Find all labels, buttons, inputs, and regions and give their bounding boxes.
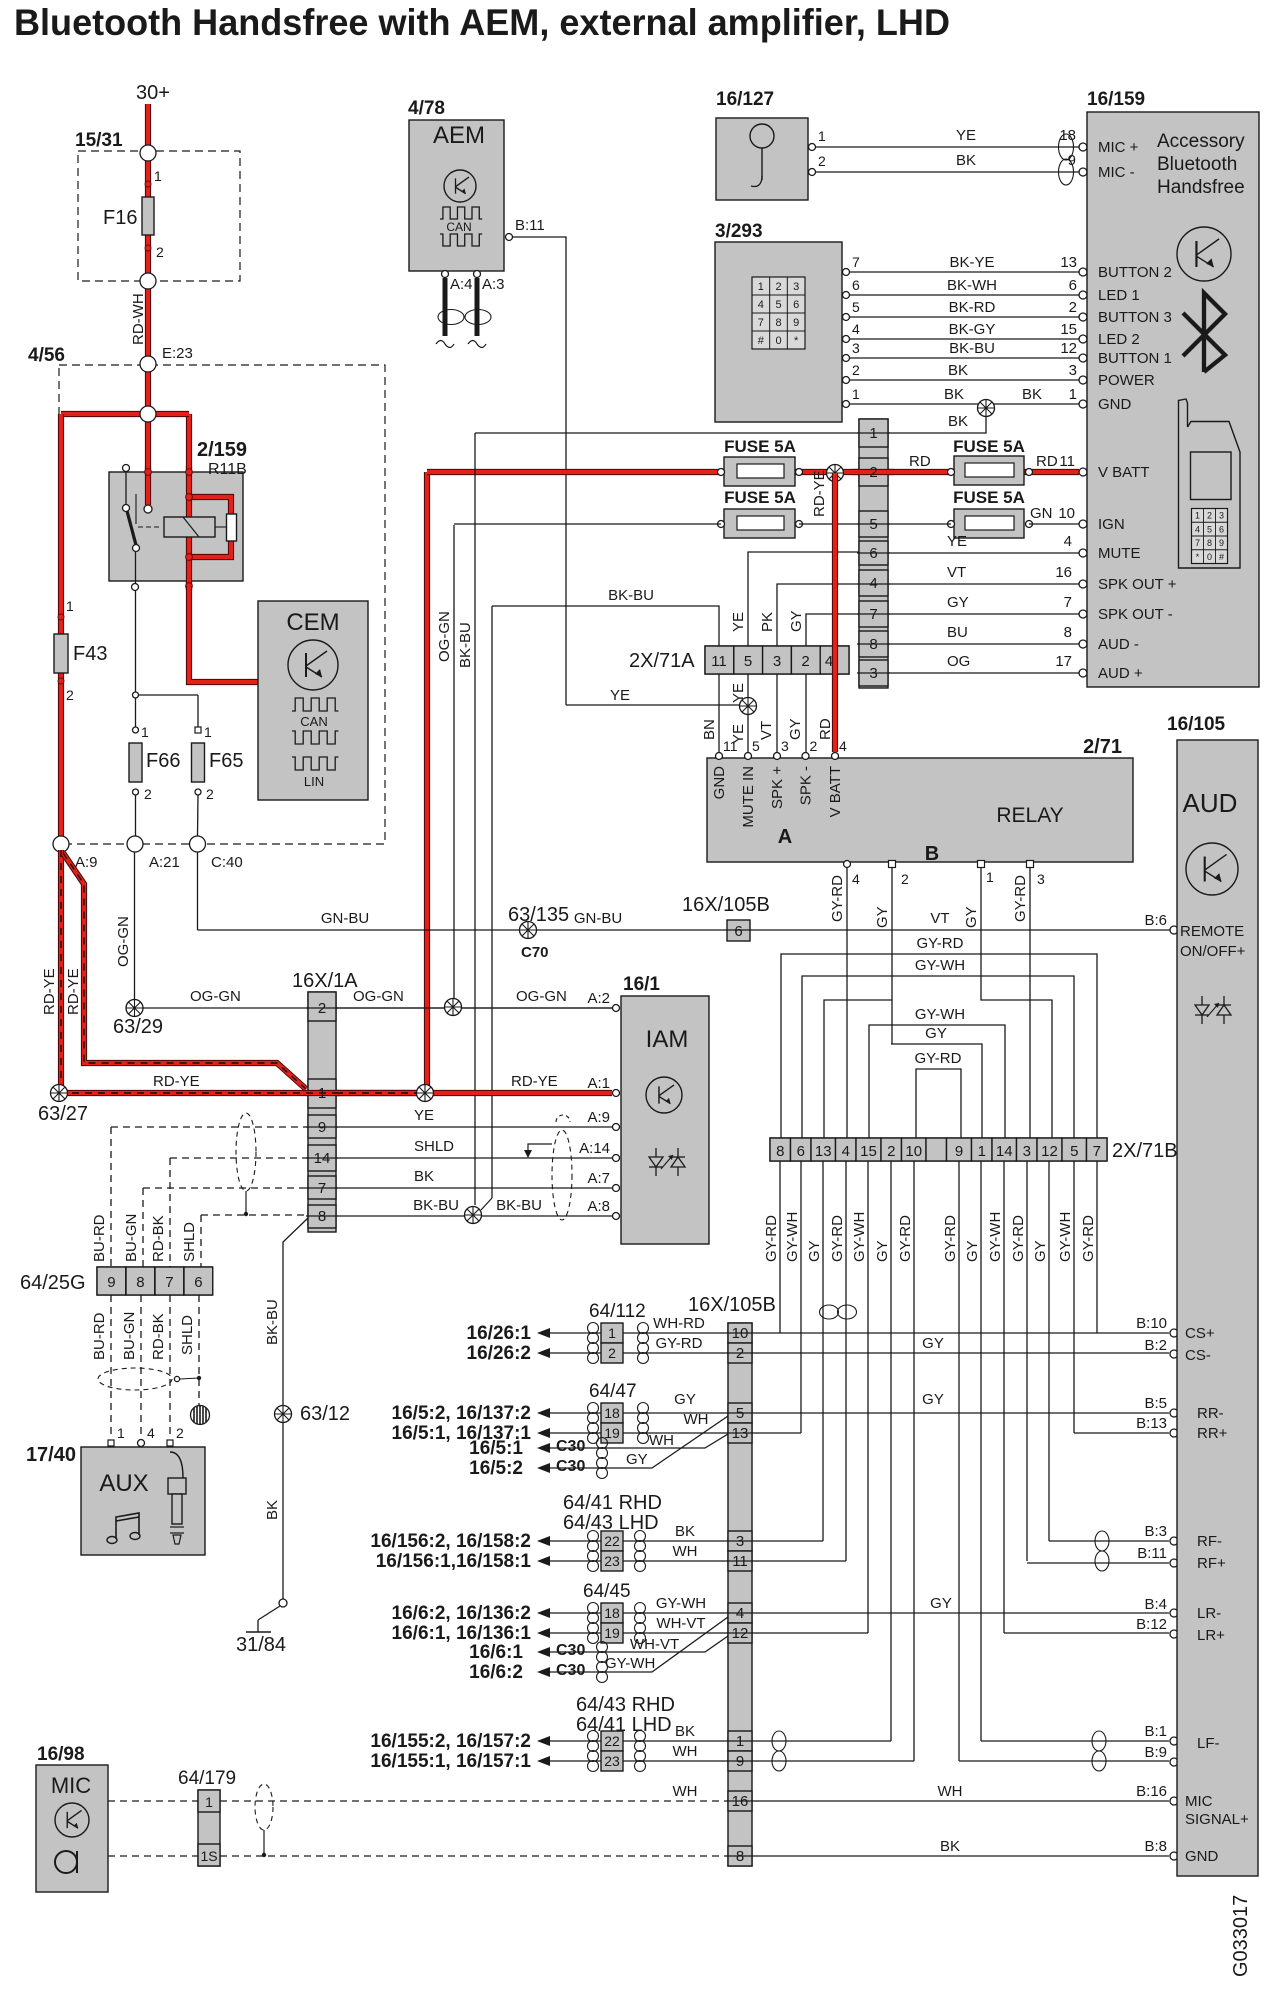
svg-text:B:8: B:8 — [1144, 1838, 1167, 1855]
svg-text:17/40: 17/40 — [26, 1444, 76, 1466]
wire GY-WH C30 to pin 4 — [550, 1617, 728, 1672]
wire VT from strip cell 4 — [777, 584, 859, 646]
wire GN-BU from C:40 down — [197, 852, 199, 930]
svg-text:C30: C30 — [556, 1438, 585, 1455]
svg-text:BK-WH: BK-WH — [947, 277, 997, 294]
wire GY from 2X/71B — [1048, 1161, 1050, 1541]
fuse box connector strip — [859, 419, 888, 688]
svg-text:16/156:1,16/158:1: 16/156:1,16/158:1 — [376, 1551, 532, 1572]
svg-text:1: 1 — [869, 425, 877, 442]
splice BK-BU ground join — [465, 1207, 482, 1224]
wire LF+ left row joins 2X/71B pin 10 wire — [752, 1760, 914, 1762]
svg-text:3: 3 — [773, 653, 781, 670]
svg-text:GY-RD: GY-RD — [1010, 1215, 1027, 1262]
svg-text:GN-BU: GN-BU — [574, 910, 622, 927]
wire BK keypad pin 1 to 16/159 pin 1 — [846, 403, 1079, 405]
red junction dots on relay 2/159 — [145, 469, 152, 476]
svg-text:BK-BU: BK-BU — [949, 340, 995, 357]
wire VT to SPK OUT + pin 16 — [888, 583, 1079, 585]
svg-text:4: 4 — [852, 871, 860, 887]
phone keypad — [1192, 509, 1228, 564]
wire VT to AUD B:6 remote — [750, 929, 1170, 931]
pin 1 of 16/127 — [809, 144, 816, 151]
svg-text:23: 23 — [604, 1753, 620, 1769]
svg-text:BK: BK — [414, 1168, 434, 1185]
twists at 64/41 — [588, 1531, 599, 1542]
svg-text:BK: BK — [956, 152, 976, 169]
fuse F16 — [142, 197, 154, 235]
svg-text:MIC: MIC — [51, 1773, 91, 1798]
svg-text:GY: GY — [626, 1451, 648, 1468]
svg-text:2: 2 — [852, 362, 860, 378]
svg-text:3: 3 — [781, 738, 789, 754]
node A:21 — [127, 836, 143, 852]
svg-text:LIN: LIN — [304, 774, 324, 789]
svg-text:2/159: 2/159 — [197, 439, 247, 461]
svg-text:GY: GY — [930, 1595, 952, 1612]
wire CS+ row to AUD B:10 — [752, 1332, 1169, 1334]
svg-text:GY: GY — [788, 610, 805, 632]
svg-text:2/71: 2/71 — [1083, 736, 1122, 758]
svg-text:VT: VT — [930, 910, 949, 927]
wire RD-YE relay output to CEM — [189, 586, 258, 682]
twists at 64/112 — [588, 1323, 599, 1334]
pin 2 of F43 — [58, 678, 64, 684]
svg-text:63/135: 63/135 — [508, 904, 569, 926]
svg-text:2: 2 — [176, 1425, 184, 1441]
svg-text:YE: YE — [414, 1107, 434, 1124]
CAN twisted pair symbol — [438, 310, 464, 325]
svg-text:OG-GN: OG-GN — [353, 988, 404, 1005]
svg-text:16: 16 — [732, 1793, 749, 1810]
fuse F66 — [129, 743, 142, 782]
svg-text:31/84: 31/84 — [236, 1634, 286, 1656]
bracket GY-WH 2X/71B pins 6-5 — [802, 976, 1074, 1138]
wire WH to 16X/105B pin 11 — [550, 1560, 601, 1562]
svg-text:11: 11 — [711, 653, 727, 670]
svg-text:CAN: CAN — [300, 714, 327, 729]
svg-text:1: 1 — [204, 724, 212, 740]
svg-text:5: 5 — [1070, 1143, 1078, 1160]
wire WH dashed from 64/179 to 16X/105B pin 16 — [220, 1800, 728, 1802]
wire GY-WH to 16X/105B pin 4 — [550, 1612, 601, 1614]
wire BK-BU keypad pin 3 to 16/159 pin 12 — [846, 357, 1079, 359]
svg-text:YE: YE — [956, 127, 976, 144]
svg-text:2: 2 — [810, 738, 818, 754]
svg-text:GND: GND — [1098, 396, 1132, 413]
svg-text:GN-BU: GN-BU — [321, 910, 369, 927]
twists at 64/43 — [588, 1731, 599, 1742]
CEM control module box — [258, 601, 368, 800]
svg-text:1: 1 — [154, 168, 162, 184]
svg-text:2: 2 — [1069, 299, 1077, 316]
svg-text:16X/1A: 16X/1A — [292, 970, 358, 992]
svg-text:BUTTON 3: BUTTON 3 — [1098, 309, 1172, 326]
svg-text:12: 12 — [732, 1625, 749, 1642]
svg-text:16/6:2, 16/136:2: 16/6:2, 16/136:2 — [392, 1603, 531, 1624]
relay 2/159 pin bottom left — [132, 584, 139, 591]
svg-text:Bluetooth: Bluetooth — [1157, 154, 1237, 175]
svg-text:REMOTE: REMOTE — [1180, 923, 1244, 940]
wire GY relay B2 jog to 2X/71B pin 13 — [891, 868, 893, 1044]
svg-text:16/5:2: 16/5:2 — [469, 1458, 523, 1479]
twists at C30 RR — [597, 1438, 608, 1449]
relay 2/159 switch contact upper — [123, 505, 130, 512]
svg-text:14: 14 — [314, 1150, 331, 1167]
svg-text:OG-GN: OG-GN — [436, 611, 453, 662]
svg-text:8: 8 — [736, 1848, 744, 1865]
wire GY-RD relay B3 to 2X/71B pin 3 — [1029, 868, 1031, 1138]
svg-text:C70: C70 — [521, 944, 549, 961]
wire BK strip cell 1 to ground splice — [888, 412, 986, 433]
wire YE mute line from AEM to splice — [566, 704, 741, 706]
shield oval around AUX cable — [98, 1368, 172, 1390]
svg-text:2: 2 — [801, 653, 809, 670]
svg-text:6: 6 — [869, 545, 877, 562]
relay 2/159 switch contact lower — [133, 545, 140, 552]
svg-text:B:5: B:5 — [1144, 1395, 1167, 1412]
svg-text:4: 4 — [869, 575, 877, 592]
connector 64/43 cells — [601, 1731, 623, 1751]
svg-text:6: 6 — [793, 299, 799, 311]
wire BU-RD dashed from 16X/1A pin 9 to 64/25G — [111, 1126, 308, 1128]
svg-text:4: 4 — [1195, 524, 1200, 534]
svg-text:4/78: 4/78 — [408, 98, 445, 119]
pin 1 of F43 — [58, 614, 64, 620]
svg-text:RD: RD — [909, 453, 931, 470]
svg-text:3: 3 — [852, 340, 860, 356]
svg-text:16/6:2: 16/6:2 — [469, 1662, 523, 1683]
svg-text:WH: WH — [673, 1543, 698, 1560]
svg-text:2X/71A: 2X/71A — [629, 650, 695, 672]
wire GY from 2X/71B — [890, 1161, 892, 1741]
wire GY to SPK OUT - pin 7 — [888, 613, 1079, 615]
relay 2/159 coil red loop — [189, 497, 231, 514]
svg-text:1: 1 — [978, 1143, 986, 1160]
svg-text:C:40: C:40 — [211, 854, 243, 871]
pin 2 of F66 — [133, 789, 139, 795]
svg-text:6: 6 — [734, 923, 742, 940]
svg-text:RF+: RF+ — [1197, 1555, 1226, 1572]
svg-text:8: 8 — [1064, 624, 1072, 641]
svg-text:18: 18 — [604, 1405, 620, 1421]
wire OG to AUD + pin 17 — [888, 672, 1079, 674]
svg-text:10: 10 — [905, 1143, 922, 1160]
svg-text:MUTE IN: MUTE IN — [740, 766, 757, 828]
svg-text:16/5:1: 16/5:1 — [469, 1438, 523, 1459]
wire YE to MUTE pin 4 — [888, 552, 1079, 554]
svg-text:RELAY: RELAY — [996, 804, 1063, 827]
svg-text:8: 8 — [1207, 538, 1212, 548]
wire GN drop to OG-GN splice — [453, 525, 455, 999]
svg-text:A:7: A:7 — [587, 1170, 610, 1187]
svg-text:BU-RD: BU-RD — [91, 1214, 108, 1262]
AUX pin 1 — [108, 1440, 114, 1446]
connector 64/41 cells — [601, 1531, 623, 1551]
svg-text:3/293: 3/293 — [715, 221, 763, 242]
svg-text:A:3: A:3 — [482, 276, 505, 293]
svg-text:7: 7 — [1064, 594, 1072, 611]
svg-text:B:13: B:13 — [1136, 1415, 1167, 1432]
svg-text:GY: GY — [964, 1240, 981, 1262]
svg-text:BK: BK — [944, 386, 964, 403]
node A:9 — [53, 836, 69, 852]
wire LF- right to AUD B:1 — [981, 1740, 1169, 1742]
svg-text:VT: VT — [758, 721, 775, 740]
wire BK dashed MIC to 64/179 pin 1S — [108, 1855, 198, 1857]
svg-text:B:4: B:4 — [1144, 1596, 1167, 1613]
svg-text:3: 3 — [1037, 871, 1045, 887]
wire GY CS- row to AUD B:2 — [752, 1352, 1169, 1354]
svg-text:16/6:1, 16/136:1: 16/6:1, 16/136:1 — [392, 1623, 532, 1644]
svg-text:BUTTON 2: BUTTON 2 — [1098, 264, 1172, 281]
svg-text:GY-RD: GY-RD — [656, 1335, 703, 1352]
svg-text:3: 3 — [793, 281, 799, 293]
svg-text:F16: F16 — [103, 207, 137, 229]
svg-text:23: 23 — [604, 1553, 620, 1569]
svg-text:3: 3 — [869, 665, 877, 682]
svg-text:RD-YE: RD-YE — [153, 1073, 200, 1090]
svg-text:GY: GY — [874, 906, 891, 928]
svg-text:Bluetooth Handsfree with AEM,: Bluetooth Handsfree with AEM, external a… — [14, 2, 950, 43]
svg-text:64/47: 64/47 — [589, 1381, 637, 1402]
wire GY-WH from 2X/71B — [1003, 1161, 1005, 1633]
svg-text:#: # — [758, 335, 765, 347]
svg-text:GY-WH: GY-WH — [851, 1212, 868, 1262]
wire GY from 2X/71B — [980, 1161, 982, 1741]
svg-text:1: 1 — [66, 598, 74, 614]
svg-text:1: 1 — [758, 281, 764, 293]
svg-text:GN: GN — [1030, 505, 1053, 522]
wire GY-RD relay B4 to 2X/71B pin 4 — [846, 868, 848, 1138]
AEM module box 4/78 — [409, 120, 504, 271]
svg-text:2X/71B: 2X/71B — [1112, 1140, 1178, 1162]
16/98 ECU icon — [55, 1803, 89, 1837]
svg-text:RD-WH: RD-WH — [130, 293, 147, 345]
svg-text:A:8: A:8 — [587, 1198, 610, 1215]
bracket GY 2X/71B pins 2-1 — [891, 1044, 982, 1138]
wire LR+ left row joins 2X/71B pin 15 wire — [752, 1632, 868, 1634]
svg-text:C30: C30 — [556, 1458, 585, 1475]
svg-text:2: 2 — [887, 1143, 895, 1160]
wire RD-BK dashed from 16X/1A pin 14 — [170, 1157, 308, 1159]
svg-text:9: 9 — [318, 1119, 326, 1136]
svg-text:4: 4 — [736, 1605, 744, 1622]
connector 2X/71B strip — [770, 1138, 1107, 1161]
svg-text:AUD -: AUD - — [1098, 636, 1139, 653]
wire GY from 2X/71B — [822, 1161, 824, 1541]
svg-text:A:14: A:14 — [579, 1140, 610, 1157]
svg-text:OG-GN: OG-GN — [516, 988, 567, 1005]
svg-text:GY-RD: GY-RD — [829, 875, 846, 922]
AUX jack plug icon — [170, 1452, 183, 1478]
pin V BATT of 16/159 — [1079, 468, 1087, 476]
svg-text:A:2: A:2 — [587, 990, 610, 1007]
wire BK mic- row — [816, 171, 1079, 173]
AUX pin 4 — [138, 1440, 145, 1447]
svg-text:B:12: B:12 — [1136, 1616, 1167, 1633]
wire F65 to C:40 — [197, 795, 200, 836]
wire WH-RD 16/26:1 to 16X/105B pin 10 — [550, 1332, 601, 1334]
svg-text:6: 6 — [194, 1274, 202, 1291]
svg-text:22: 22 — [604, 1533, 620, 1549]
svg-text:FUSE 5A: FUSE 5A — [953, 488, 1025, 507]
svg-text:14: 14 — [996, 1143, 1013, 1160]
relay 2/159 switch blade — [127, 511, 136, 545]
wire GY to 16X/105B pin 5 — [550, 1412, 601, 1414]
relay 2/159 switch input pin — [144, 505, 152, 513]
svg-text:1: 1 — [117, 1425, 125, 1441]
wire WH to AUD B:16 — [752, 1800, 1169, 1802]
svg-text:GY-WH: GY-WH — [784, 1212, 801, 1262]
svg-text:7: 7 — [165, 1274, 173, 1291]
wire GY-RD from 2X/71B — [913, 1161, 915, 1761]
svg-text:15/31: 15/31 — [75, 130, 123, 151]
svg-text:V BATT: V BATT — [1098, 464, 1149, 481]
svg-text:WH-VT: WH-VT — [656, 1615, 705, 1632]
svg-text:PK: PK — [759, 612, 776, 632]
wire GY-RD from 2X/71B — [779, 1161, 781, 1333]
svg-text:WH-RD: WH-RD — [653, 1315, 705, 1332]
svg-text:2: 2 — [156, 244, 164, 260]
svg-text:RD-YE: RD-YE — [511, 1073, 558, 1090]
svg-text:BK: BK — [948, 413, 968, 430]
svg-text:6: 6 — [1069, 277, 1077, 294]
svg-text:1: 1 — [736, 1733, 744, 1750]
svg-text:WH: WH — [673, 1743, 698, 1760]
svg-text:YE: YE — [947, 533, 967, 550]
wire WH to 16X/105B pin 9 — [550, 1760, 601, 1762]
svg-text:16X/105B: 16X/105B — [688, 1294, 776, 1316]
shield oval at 64/179 — [255, 1784, 273, 1830]
wire OG-GN from A:21 down to splice 63/29 — [134, 852, 136, 1000]
splice RD-YE at IAM feed — [417, 1085, 434, 1102]
ground symbol 31/84 — [279, 1599, 287, 1607]
svg-text:F43: F43 — [73, 643, 107, 665]
svg-text:#: # — [1219, 552, 1224, 562]
CAN bus thick wires from AEM — [443, 278, 448, 336]
svg-text:B:16: B:16 — [1136, 1783, 1167, 1800]
svg-text:64/112: 64/112 — [589, 1301, 646, 1322]
svg-text:9: 9 — [793, 317, 799, 329]
svg-text:SHLD: SHLD — [181, 1222, 198, 1262]
svg-text:63/27: 63/27 — [38, 1103, 88, 1125]
svg-text:2: 2 — [206, 786, 214, 802]
wire BK-BU 16X/1A pin8 to IAM A:8 — [336, 1215, 612, 1217]
wire BK 16X/1A pin7 to IAM A:7 — [336, 1187, 612, 1189]
svg-text:A:1: A:1 — [587, 1075, 610, 1092]
branch node to F65 — [136, 694, 199, 696]
svg-text:64/179: 64/179 — [178, 1768, 236, 1789]
svg-text:1: 1 — [1195, 511, 1200, 521]
wire RD 30+ feed vertical — [145, 104, 151, 414]
svg-text:GY-WH: GY-WH — [656, 1595, 706, 1612]
wire BK-RD keypad pin 5 to 16/159 pin 2 — [846, 316, 1079, 318]
node E:23 pass-through — [140, 356, 156, 372]
svg-text:SPK -: SPK - — [798, 766, 815, 805]
wire WH-VT C30 to pin 12 — [550, 1636, 728, 1652]
svg-text:BK: BK — [1022, 386, 1042, 403]
wire GN-BU C:40 to 16X/105B pin 6 — [198, 929, 728, 931]
svg-text:10: 10 — [1058, 505, 1075, 522]
pin 1 of F65 — [195, 727, 201, 733]
svg-text:GY: GY — [674, 1391, 696, 1408]
svg-text:22: 22 — [604, 1733, 620, 1749]
svg-text:FUSE 5A: FUSE 5A — [953, 437, 1025, 456]
relay 2/159 switch wire — [125, 471, 127, 505]
junction node at E:23 branch — [140, 406, 156, 422]
svg-text:1: 1 — [986, 869, 994, 885]
svg-text:2: 2 — [608, 1345, 616, 1361]
svg-text:BK-BU: BK-BU — [608, 587, 654, 604]
wire RF- left row joins 2X/71B pin 13 wire — [752, 1540, 823, 1542]
svg-text:16/155:2, 16/157:2: 16/155:2, 16/157:2 — [370, 1731, 531, 1752]
relay 2/159 coil — [164, 517, 215, 537]
svg-text:5: 5 — [852, 299, 860, 315]
twists at 64/45 — [588, 1603, 599, 1614]
svg-text:CS-: CS- — [1185, 1347, 1211, 1364]
wire RD-YE branch left to A:9 — [61, 411, 148, 417]
wire YE 16X/1A pin9 to IAM A:9 — [336, 1126, 612, 1128]
svg-text:11: 11 — [1059, 453, 1075, 470]
svg-text:4: 4 — [825, 653, 833, 670]
svg-text:LR+: LR+ — [1197, 1627, 1225, 1644]
wire RR+ row to AUD B:13 — [752, 1432, 801, 1434]
svg-text:4: 4 — [842, 1143, 850, 1160]
svg-text:VT: VT — [947, 564, 966, 581]
wire SHLD 16X/1A pin14 to IAM A:14 — [336, 1157, 612, 1159]
svg-text:7: 7 — [1093, 1143, 1101, 1160]
AUD ECU icon — [1186, 843, 1238, 895]
svg-text:19: 19 — [604, 1625, 620, 1641]
svg-text:SPK OUT +: SPK OUT + — [1098, 576, 1177, 593]
svg-text:6: 6 — [1219, 524, 1224, 534]
fuse F43 — [54, 634, 68, 673]
svg-text:SIGNAL+: SIGNAL+ — [1185, 1811, 1249, 1828]
svg-text:GND: GND — [711, 766, 728, 800]
svg-text:*: * — [794, 335, 799, 347]
shield earth hatched circle — [191, 1406, 210, 1425]
svg-text:LF-: LF- — [1197, 1735, 1220, 1752]
svg-text:1: 1 — [852, 386, 860, 402]
svg-text:64/45: 64/45 — [583, 1581, 631, 1602]
twists at C30 LR — [597, 1642, 608, 1653]
svg-text:19: 19 — [604, 1425, 620, 1441]
svg-text:BUTTON 1: BUTTON 1 — [1098, 350, 1172, 367]
svg-text:30+: 30+ — [136, 82, 170, 104]
wire GY-WH from 2X/71B — [800, 1161, 802, 1433]
svg-text:6: 6 — [797, 1143, 805, 1160]
svg-text:8: 8 — [136, 1274, 144, 1291]
splice on GND row — [985, 404, 987, 414]
16/98 mic pictogram — [55, 1851, 77, 1873]
AEM pin B:11 — [506, 234, 513, 241]
svg-text:MIC: MIC — [1185, 1793, 1213, 1810]
svg-text:YE: YE — [610, 687, 630, 704]
svg-text:GY: GY — [925, 1025, 947, 1042]
twisted pair marker on RF feed pair — [820, 1305, 839, 1319]
wire RD into relay switch redrawn over box — [145, 466, 151, 505]
svg-text:16/159: 16/159 — [1087, 89, 1145, 110]
wire GY-RD 16/26:2 to 16X/105B pin 2 — [550, 1352, 601, 1354]
mic pair twisted symbol — [1059, 134, 1074, 160]
svg-text:2: 2 — [901, 871, 909, 887]
svg-text:13: 13 — [732, 1425, 749, 1442]
svg-text:4: 4 — [852, 321, 860, 337]
svg-text:AEM: AEM — [433, 122, 485, 149]
svg-text:B:1: B:1 — [1144, 1723, 1167, 1740]
wire RD-YE 16X/1A pin1 to IAM A:1 — [336, 1090, 423, 1096]
